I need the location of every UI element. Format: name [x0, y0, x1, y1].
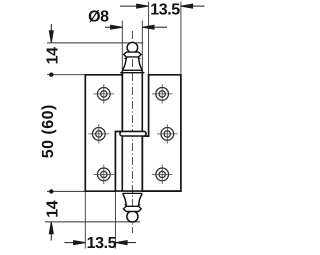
dimension dot at plate top	[49, 73, 53, 77]
screw hole right bottom	[152, 165, 173, 184]
upper finial ball	[127, 42, 138, 53]
dimension diameter-8: leader arrows at pin	[105, 25, 167, 29]
upper finial collar	[124, 52, 141, 57]
dimension 14 (bottom): up arrow and tail	[49, 222, 53, 241]
left leaf plate	[85, 75, 122, 191]
cranked step edge of left leaf	[115, 132, 120, 192]
extension line: bottom of lower finial (for 14 dim)	[45, 221, 140, 223]
extension line: right leaf outer edge for top 13.5	[180, 2, 182, 75]
extension line: left leaf outer edge for bottom 13.5	[84, 191, 86, 248]
barrel bottom rim lines	[115, 191, 180, 193]
extension line: barrel left for diameter 8	[121, 21, 123, 71]
barrel top rim lines	[120, 70, 144, 72]
screw hole left top	[93, 84, 114, 103]
hinge pin centerline	[131, 31, 133, 233]
cranked step edge of right leaf	[144, 135, 148, 137]
svg-text:13.5: 13.5	[87, 235, 117, 250]
extension line: barrel right for diameter 8	[141, 21, 143, 71]
lower finial collar	[124, 206, 142, 211]
upper finial bell	[123, 57, 143, 70]
extension line: cranked edge for bottom 13.5	[114, 132, 116, 249]
screw hole left bottom	[93, 165, 114, 184]
knuckle barrel walls upper	[122, 70, 142, 131]
dimension 14 (top): line and down arrow	[49, 24, 53, 43]
svg-text:14: 14	[45, 47, 62, 64]
screw hole right middle	[157, 124, 178, 143]
svg-text:13.5: 13.5	[150, 1, 180, 18]
extension line: bottom of left leaf (for 50/14 dims)	[47, 190, 85, 192]
knuckle joint capsule	[120, 131, 146, 136]
lower finial ball	[127, 211, 138, 222]
extension line: right leaf inner edge for top 13.5	[148, 2, 150, 75]
svg-text:50 (60): 50 (60)	[40, 104, 57, 158]
dimension dot at plate bottom	[49, 189, 53, 193]
screw hole left middle	[88, 124, 109, 143]
svg-text:14: 14	[44, 200, 61, 217]
extension line: top of finial (for 14 dim)	[47, 42, 143, 44]
dimension 13.5 (bottom): inward arrows	[65, 241, 137, 245]
lower finial bell	[123, 194, 142, 206]
extension line: top of left leaf (for 14 dim)	[47, 74, 85, 76]
dimension 13.5 (top): inward arrows	[120, 4, 205, 8]
knuckle barrel walls lower	[122, 136, 142, 191]
svg-text:Ø8: Ø8	[88, 8, 109, 25]
right leaf plate	[142, 75, 181, 191]
screw hole right top	[152, 84, 173, 103]
